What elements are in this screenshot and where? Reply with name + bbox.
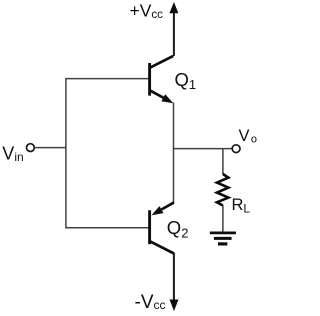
svg-text:-Vcc: -Vcc: [135, 292, 166, 313]
svg-text:Vo: Vo: [239, 127, 257, 145]
terminal Vo: [232, 145, 240, 153]
svg-text:RL: RL: [232, 196, 251, 216]
wire Vin lead: [35, 147, 66, 149]
wire output node down to Q2 emitter: [173, 149, 175, 203]
wire output node to Vo terminal: [173, 148, 232, 150]
power arrow +Vcc: [169, 2, 178, 56]
transistor Q2: [150, 202, 174, 253]
svg-text:Vin: Vin: [2, 143, 23, 164]
wire input rail (Q1 base to Q2 base): [66, 79, 149, 228]
terminal Vin: [27, 144, 35, 152]
svg-text:Q1: Q1: [175, 69, 197, 92]
transistor Q1: [150, 56, 174, 103]
svg-text:+Vcc: +Vcc: [130, 1, 164, 21]
power arrow -Vcc: [170, 253, 179, 311]
svg-text:Q2: Q2: [167, 217, 189, 240]
wire RL to ground: [222, 205, 224, 231]
wire output node down to RL: [222, 149, 224, 175]
wire Q1 emitter to output node: [173, 103, 175, 150]
ground: [210, 233, 236, 244]
resistor RL: [217, 174, 229, 206]
